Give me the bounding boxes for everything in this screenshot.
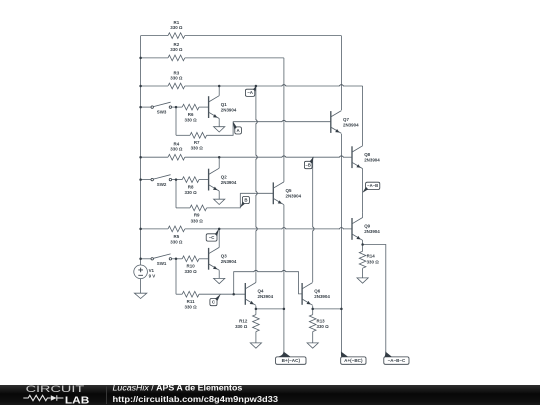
hop R3 v4: [339, 85, 344, 88]
svg-text:2N3904: 2N3904: [221, 259, 237, 264]
wire Q9 emitter: [362, 240, 364, 244]
svg-text:R11: R11: [187, 299, 195, 304]
svg-text:330 Ω: 330 Ω: [367, 260, 380, 265]
wire V1 to ground: [140, 279, 142, 294]
junction rail-R5: [139, 228, 142, 231]
svg-text:330 Ω: 330 Ω: [191, 218, 204, 223]
wire Q8 base: [341, 156, 352, 158]
hop R4 v1: [255, 155, 258, 160]
svg-text:R12: R12: [239, 318, 248, 323]
voltage source V1: [134, 265, 156, 279]
junction rail-SW1: [139, 258, 142, 261]
wire Q1 emitter: [218, 119, 220, 127]
wire node A to Q7 base: [233, 121, 331, 123]
svg-text:Q1: Q1: [221, 102, 227, 107]
svg-text:A+(−BC): A+(−BC): [344, 358, 363, 363]
resistor R9: [176, 193, 240, 223]
wire Q7 emitter: [340, 134, 342, 157]
junction Q3 collector -C: [218, 228, 221, 231]
wire Q6 emitter row: [313, 308, 342, 310]
junction Q6em left: [311, 308, 314, 311]
net flag B+(-AC): [276, 352, 306, 365]
junction Q6em right: [340, 308, 343, 311]
junction Q9 emitter: [361, 243, 364, 246]
resistor R8: [182, 177, 208, 195]
wire Q4 emitter row: [256, 308, 284, 310]
node A flag: [233, 121, 242, 134]
wire left supply rail: [140, 36, 142, 266]
transistor Q8: [352, 146, 380, 169]
wire node B to Q5 base: [240, 192, 273, 194]
hop R5 v1: [255, 227, 258, 232]
transistor Q5: [273, 182, 301, 205]
svg-text:−B: −B: [305, 162, 310, 167]
hop R3 v2: [282, 85, 287, 88]
svg-text:R9: R9: [194, 213, 200, 218]
footer url: [113, 395, 279, 404]
node -A flag: [245, 86, 256, 97]
svg-text:http://circuitlab.com/c8g4m9np: http://circuitlab.com/c8g4m9npw3d33: [113, 395, 279, 404]
footer author / title: [113, 384, 243, 393]
svg-text:Q8: Q8: [364, 152, 370, 157]
svg-text:330 Ω: 330 Ω: [184, 190, 197, 195]
svg-text:B: B: [244, 197, 247, 202]
wire SW1 to R11: [175, 259, 177, 294]
resistor R4: [141, 142, 342, 161]
switch SW2: [141, 175, 183, 187]
junction Q2 collector: [218, 156, 221, 159]
wire SW3 to R7: [175, 107, 177, 135]
wire R11 up to collector bus: [234, 272, 302, 295]
svg-text:2N3904: 2N3904: [314, 294, 330, 299]
junction R11 nodeC vert: [232, 293, 235, 296]
hop Aline-already: [0, 0, 1, 1]
wire Q1 collector: [218, 86, 220, 96]
svg-text:Q6: Q6: [314, 289, 320, 294]
svg-text:R13: R13: [317, 318, 326, 323]
ground Q1: [214, 127, 225, 132]
svg-text:SW1: SW1: [157, 261, 167, 266]
switch SW3: [141, 102, 183, 114]
wire Q5 collector: [283, 58, 285, 182]
ground Q3: [214, 278, 225, 283]
svg-text:−C: −C: [209, 235, 216, 240]
wire Q2 emitter: [218, 191, 220, 199]
junction rail-R3: [139, 85, 142, 88]
hop R4 v4: [339, 156, 344, 159]
svg-text:−A−B: −A−B: [367, 183, 378, 188]
net flag A+(-BC): [341, 352, 366, 365]
ground R12: [250, 343, 261, 348]
svg-text:9 V: 9 V: [149, 273, 156, 278]
resistor R7: [176, 122, 233, 151]
wire Q6 collector: [312, 157, 314, 282]
junction Q4em right: [283, 308, 286, 311]
junction rail-SW3: [139, 106, 142, 109]
wire v4 lower: [340, 157, 342, 352]
svg-text:R5: R5: [174, 234, 180, 239]
svg-text:Q4: Q4: [258, 289, 264, 294]
transistor Q3: [209, 247, 237, 270]
footer divider: [106, 387, 108, 405]
junction SW2 node: [175, 178, 178, 181]
wire Q3 emitter: [218, 270, 220, 278]
node -A-B flag: [362, 182, 380, 193]
resistor R6: [182, 104, 208, 122]
wire Q9 collector: [362, 212, 364, 217]
CircuitLab logo resistor-diode symbol: [23, 395, 63, 401]
svg-text:2N3904: 2N3904: [343, 122, 359, 127]
transistor Q1: [209, 96, 237, 119]
resistor R2: [141, 42, 284, 61]
svg-text:R8: R8: [188, 184, 194, 189]
svg-text:Q3: Q3: [221, 254, 227, 259]
svg-text:R10: R10: [187, 264, 196, 269]
svg-text:Q7: Q7: [343, 117, 349, 122]
wire Q5 emitter: [283, 205, 285, 353]
resistor R5: [141, 226, 352, 244]
svg-text:2N3904: 2N3904: [221, 180, 237, 185]
hop R5 v3: [312, 227, 315, 232]
svg-text:−A−B−C: −A−B−C: [388, 358, 406, 363]
svg-text:−A: −A: [247, 90, 254, 95]
svg-text:2N3904: 2N3904: [221, 107, 237, 112]
svg-text:CIRCUIT: CIRCUIT: [26, 384, 86, 394]
ground V1: [134, 293, 146, 298]
hop R4 v3: [0, 0, 1, 1]
node -C flag: [206, 229, 219, 242]
junction rail-R4: [139, 156, 142, 159]
CircuitLab logo LAB wordmark: [65, 396, 89, 405]
wire Q8 collector: [362, 86, 364, 146]
svg-text:2N3904: 2N3904: [286, 194, 302, 199]
transistor Q6: [302, 283, 330, 306]
transistor Q2: [209, 168, 237, 191]
net flag -A-B-C: [384, 352, 409, 365]
hop R5 v4: [339, 228, 344, 231]
svg-text:330 Ω: 330 Ω: [170, 240, 183, 245]
node C flag: [210, 294, 221, 306]
svg-text:B+(−AC): B+(−AC): [282, 358, 301, 363]
transistor Q4: [245, 283, 273, 306]
svg-text:330 Ω: 330 Ω: [170, 147, 183, 152]
transistor Q9: [352, 218, 380, 241]
resistor R3: [141, 70, 363, 89]
wire Q6 emitter: [312, 306, 314, 309]
svg-text:330 Ω: 330 Ω: [184, 118, 197, 123]
hop Q5base v1: [255, 191, 258, 196]
resistor R12: [235, 309, 259, 343]
ground R13: [307, 343, 318, 348]
resistor R14: [359, 245, 379, 278]
wire Q8 emitter: [362, 169, 364, 213]
svg-text:330 Ω: 330 Ω: [235, 324, 248, 329]
wire -A vertical: [255, 86, 257, 283]
ground R14: [357, 278, 368, 283]
junction R3 v1: [255, 85, 258, 88]
svg-text:330 Ω: 330 Ω: [170, 75, 183, 80]
svg-text:SW3: SW3: [157, 110, 167, 115]
node B flag: [240, 197, 249, 208]
junction rail-SW2: [139, 178, 142, 181]
wire Q4 emitter: [255, 306, 257, 309]
resistor R10: [182, 256, 208, 274]
wire Q7 collector: [340, 36, 342, 111]
junction Q1 collector: [218, 85, 221, 88]
hop collector bus v2: [282, 270, 287, 273]
svg-text:330 Ω: 330 Ω: [184, 305, 197, 310]
svg-text:LAB: LAB: [65, 396, 89, 405]
junction SW1 node: [175, 258, 178, 261]
svg-text:Q5: Q5: [286, 188, 292, 193]
junction Q4em left: [255, 308, 258, 311]
hop A-line v1: [255, 119, 258, 124]
switch SW1: [141, 254, 183, 266]
hop R5 v2: [282, 228, 287, 231]
svg-text:2N3904: 2N3904: [258, 294, 274, 299]
wire Q9em to -A-B-C: [363, 245, 386, 353]
hop A-line v2: [282, 120, 287, 123]
junction SW3 node: [175, 106, 178, 109]
svg-text:R14: R14: [367, 253, 376, 258]
node -B flag: [304, 157, 313, 169]
svg-text:330 Ω: 330 Ω: [191, 146, 204, 151]
hop collector bus v1: [254, 270, 259, 273]
svg-text:SW2: SW2: [157, 182, 167, 187]
wire SW2 to R9: [175, 180, 177, 208]
junction rail-R2: [139, 57, 142, 60]
resistor R1: [141, 20, 342, 39]
resistor R13: [309, 309, 329, 343]
svg-text:330 Ω: 330 Ω: [170, 47, 183, 52]
CircuitLab logo CIRCUIT wordmark: [26, 384, 86, 394]
ground Q2: [214, 199, 225, 204]
svg-text:R6: R6: [188, 112, 194, 117]
resistor R11: [176, 291, 245, 309]
junction R3 v3: [0, 0, 1, 1]
svg-text:330 Ω: 330 Ω: [317, 324, 330, 329]
svg-text:LucasHix / APS A de Elementos: LucasHix / APS A de Elementos: [113, 384, 243, 393]
svg-text:330 Ω: 330 Ω: [184, 269, 197, 274]
svg-text:Q9: Q9: [364, 224, 370, 229]
transistor Q7: [331, 111, 359, 134]
svg-text:2N3904: 2N3904: [364, 158, 380, 163]
wire Q2 collector: [218, 157, 220, 168]
svg-text:330 Ω: 330 Ω: [170, 25, 183, 30]
svg-text:Q2: Q2: [221, 174, 227, 179]
svg-text:R7: R7: [194, 140, 200, 145]
svg-text:2N3904: 2N3904: [364, 229, 380, 234]
hop R4 v2: [282, 156, 287, 159]
wire Q3 collector: [218, 229, 220, 248]
